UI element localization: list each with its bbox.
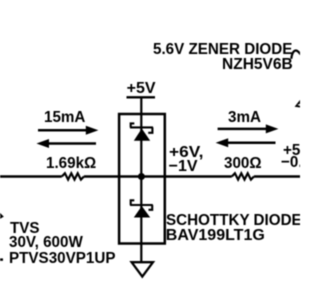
label 300 ohm: [224, 156, 262, 172]
diode D1 anode triangle: [134, 129, 150, 141]
label 15mA: [44, 110, 85, 126]
callout arrow tail (zener label, cut off at edge): [291, 51, 301, 59]
callout arrowhead fragment (TVS pointer, left edge): [0, 212, 2, 219]
current arrow left (15mA return): [48, 142, 96, 145]
label 5.6V ZENER DIODE: [153, 42, 292, 58]
label -1V: [169, 159, 198, 175]
label SCHOTTKY DIODES: [166, 213, 312, 229]
label +5.6V, (cut at edge): [283, 143, 320, 159]
label TVS: [10, 221, 40, 237]
callout arrow tail fragment (TVS, left edge): [0, 258, 3, 260]
label BAV199LT1G: [166, 228, 265, 244]
ground symbol: [132, 262, 153, 276]
label 1.69k ohm: [46, 156, 96, 172]
diode D2 cathode bar with schottky hooks: [130, 200, 153, 210]
current arrow right (15mA): [38, 129, 87, 132]
current arrow left (3mA return): [228, 142, 276, 145]
diode D1 cathode bar with schottky hooks: [130, 123, 153, 132]
power rail +5V bar: [127, 96, 156, 98]
diode D2 anode triangle: [134, 206, 150, 218]
callout arrowhead (zener pointer, cut off at edge): [295, 99, 302, 108]
resistor R2 300ohm zigzag: [232, 173, 254, 179]
wire +5V stem through diodes to ground: [140, 97, 142, 262]
wire right segment: [254, 175, 300, 177]
resistor R1 1.69k zigzag: [62, 173, 84, 179]
label 30V, 600W: [9, 235, 83, 251]
label -0.3V (cut at edge): [281, 155, 320, 171]
wire middle segment: [84, 175, 232, 177]
node junction dot: [138, 173, 145, 180]
package outline BAV199 box: [119, 114, 165, 244]
label NZH5V6B: [222, 57, 293, 73]
label +5V: [127, 81, 156, 97]
wire left segment: [0, 175, 62, 177]
label 3mA: [228, 110, 261, 126]
label PTVS30VP1UP: [9, 251, 115, 267]
label +6V,: [169, 145, 203, 161]
current arrow right (3mA): [218, 128, 267, 131]
